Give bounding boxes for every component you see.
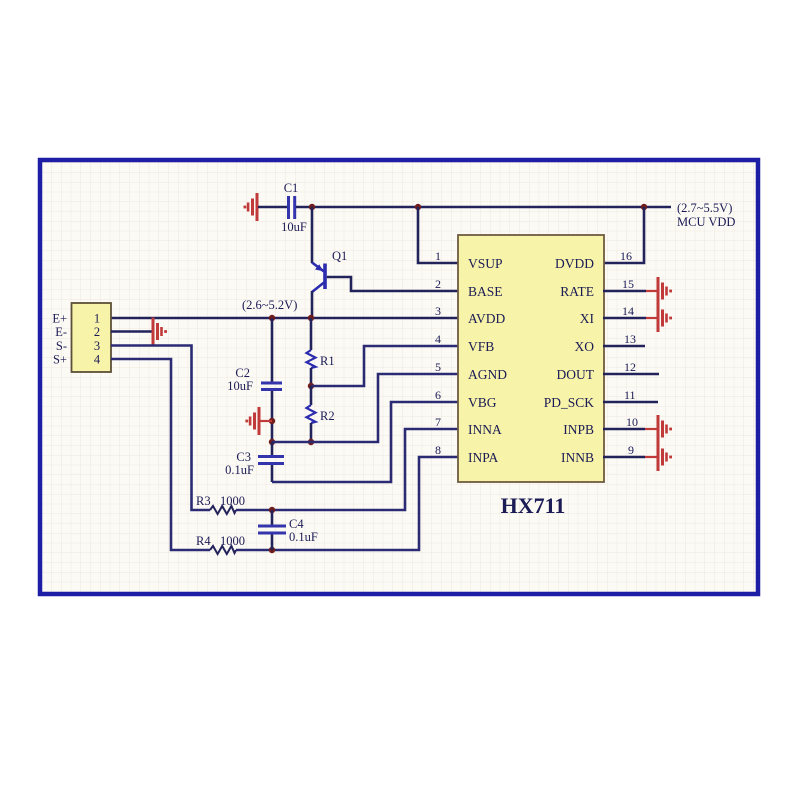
svg-text:16: 16	[620, 249, 632, 263]
svg-text:HX711: HX711	[501, 493, 566, 518]
svg-text:R1: R1	[320, 354, 335, 368]
ground GND1 (top left, at C1)	[244, 193, 259, 221]
svg-text:5: 5	[435, 360, 441, 374]
connector J1	[72, 303, 112, 372]
node junction AVDD / R1	[308, 315, 314, 321]
svg-text:3: 3	[94, 339, 100, 353]
label (2.7~5.5V) MCU VDD	[677, 201, 735, 229]
svg-text:7: 7	[435, 415, 441, 429]
node junction R4 row / C4	[269, 547, 275, 553]
resistor R1	[307, 318, 335, 386]
svg-text:VSUP: VSUP	[468, 256, 503, 271]
svg-text:XI: XI	[580, 311, 595, 326]
svg-text:INNA: INNA	[468, 422, 502, 437]
wire R4 to INPA pin 8	[236, 457, 459, 550]
wire S+ run to R4	[111, 359, 210, 550]
svg-text:RATE: RATE	[560, 284, 594, 299]
resistor R4	[196, 534, 245, 554]
svg-text:S+: S+	[53, 353, 67, 367]
svg-text:10: 10	[626, 415, 638, 429]
wire DVDD riser to pin 16	[603, 207, 644, 263]
svg-text:DVDD: DVDD	[555, 256, 594, 271]
svg-text:BASE: BASE	[468, 284, 503, 299]
svg-text:9: 9	[628, 443, 634, 457]
svg-text:VBG: VBG	[468, 395, 497, 410]
ground GND6 (INPB)	[657, 415, 673, 443]
capacitor C2	[227, 318, 282, 442]
wire GND1 to C1	[258, 206, 288, 209]
node junction AGND row left	[269, 439, 275, 445]
svg-text:1000: 1000	[220, 494, 245, 508]
wire VSUP riser to pin 1	[418, 207, 459, 263]
resistor R2	[307, 386, 335, 442]
node junction R3 row / C4	[269, 507, 275, 513]
wire Q1 base to BASE pin 2	[327, 277, 459, 291]
wire top VSUP rail	[296, 206, 671, 209]
svg-text:VFB: VFB	[468, 339, 494, 354]
svg-text:13: 13	[624, 332, 636, 346]
wire AGND row to pin 5	[272, 374, 459, 442]
wire E- to ground	[111, 330, 153, 333]
svg-text:AVDD: AVDD	[468, 311, 506, 326]
wire Q1 collector lead	[311, 291, 314, 318]
svg-text:C3: C3	[236, 450, 251, 464]
node junction C2 / ground	[269, 418, 275, 424]
svg-text:10uF: 10uF	[281, 220, 307, 234]
wire AVDD rail	[111, 317, 459, 320]
svg-text:PD_SCK: PD_SCK	[544, 395, 595, 410]
svg-text:(2.6~5.2V): (2.6~5.2V)	[242, 298, 297, 312]
node junction AVDD / C2	[269, 315, 275, 321]
svg-text:10uF: 10uF	[227, 379, 253, 393]
svg-text:(2.7~5.5V): (2.7~5.5V)	[677, 201, 732, 215]
svg-text:0.1uF: 0.1uF	[289, 530, 318, 544]
wire XI ground stub	[646, 317, 658, 319]
node junction at VSUP pin riser	[415, 204, 421, 210]
capacitor C1	[281, 181, 307, 234]
capacitor C4	[258, 510, 318, 550]
wire XO pin 13	[603, 345, 645, 348]
svg-text:4: 4	[435, 332, 441, 346]
svg-text:0.1uF: 0.1uF	[225, 463, 254, 477]
svg-text:1000: 1000	[220, 534, 245, 548]
svg-text:R3: R3	[196, 494, 211, 508]
svg-text:INNB: INNB	[561, 450, 594, 465]
svg-text:C4: C4	[289, 517, 304, 531]
svg-text:12: 12	[624, 360, 636, 374]
wire Q1 emitter lead	[311, 207, 314, 263]
wire S- run to R3	[111, 346, 210, 511]
svg-text:2: 2	[435, 277, 441, 291]
svg-text:MCU VDD: MCU VDD	[677, 215, 735, 229]
ground GND7 (INNB)	[657, 443, 673, 471]
wire RATE ground stub	[646, 290, 658, 292]
svg-text:Q1: Q1	[332, 249, 347, 263]
svg-text:3: 3	[435, 304, 441, 318]
svg-text:S-: S-	[56, 339, 67, 353]
svg-text:6: 6	[435, 388, 441, 402]
wire INPB pin 10	[603, 428, 645, 431]
svg-text:AGND: AGND	[468, 367, 507, 382]
wire INNB pin 9	[603, 456, 645, 459]
svg-text:2: 2	[94, 325, 100, 339]
svg-text:1: 1	[94, 312, 100, 326]
svg-text:DOUT: DOUT	[557, 367, 595, 382]
ground GND2 (E-)	[152, 318, 168, 346]
svg-text:8: 8	[435, 443, 441, 457]
svg-text:1: 1	[435, 249, 441, 263]
wire XI pin 14	[603, 317, 646, 320]
transistor Q1	[312, 249, 347, 292]
wire R3 to INNA pin 7	[236, 429, 459, 510]
ground GND5 (XI)	[657, 304, 673, 332]
ground GND3 (C2)	[245, 407, 272, 435]
node junction at Q1 emitter riser	[309, 204, 315, 210]
svg-text:R2: R2	[320, 409, 335, 423]
svg-text:E-: E-	[55, 325, 67, 339]
wire PD_SCK pin 11	[603, 401, 658, 404]
wire DOUT pin 12	[603, 373, 659, 376]
svg-text:INPB: INPB	[563, 422, 594, 437]
svg-text:4: 4	[94, 353, 101, 367]
ground GND4 (RATE)	[657, 277, 673, 305]
node junction R1/R2/VFB	[308, 383, 314, 389]
wire VFB to pin 4	[311, 346, 459, 386]
svg-text:R4: R4	[196, 534, 211, 548]
svg-text:XO: XO	[575, 339, 595, 354]
capacitor C3	[225, 442, 284, 482]
wire INPB ground stub	[645, 428, 658, 430]
svg-text:INPA: INPA	[468, 450, 499, 465]
wire C3 to VBG pin 6	[272, 402, 459, 482]
IC U1 HX711	[458, 235, 604, 482]
svg-text:E+: E+	[52, 312, 67, 326]
svg-text:15: 15	[622, 277, 634, 291]
node junction AGND row / R2	[308, 439, 314, 445]
svg-text:11: 11	[624, 388, 636, 402]
resistor R3	[196, 494, 245, 514]
svg-text:14: 14	[622, 304, 634, 318]
svg-text:C1: C1	[284, 181, 299, 195]
svg-text:C2: C2	[235, 366, 250, 380]
wire INNB ground stub	[645, 456, 658, 458]
node junction at DVDD riser	[641, 204, 647, 210]
wire RATE pin 15	[603, 290, 646, 293]
